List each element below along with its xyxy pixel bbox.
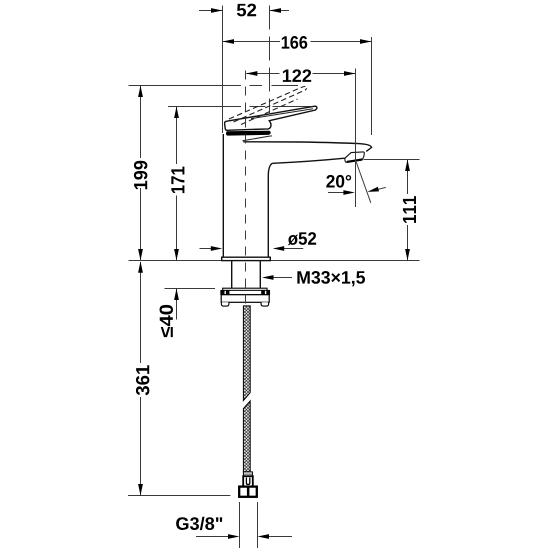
dimension 361 <box>140 262 142 363</box>
extension line top of lever (171) <box>168 106 311 108</box>
extension line 52 right (dashed) <box>269 6 271 114</box>
mounting nut <box>221 295 269 303</box>
dimension 122 <box>246 73 279 75</box>
dimension 52 top <box>199 10 222 12</box>
lever blade inner line <box>251 109 313 119</box>
spout underside <box>273 158 345 163</box>
gasket ring <box>221 290 270 294</box>
faucet body right edge with spout underside curve <box>268 163 272 257</box>
braided hose lower segment <box>243 401 250 472</box>
dimension 111 <box>407 160 409 194</box>
extension line washer top (max 40) <box>165 288 216 290</box>
centerline of faucet body <box>245 65 247 305</box>
faucet body left edge <box>222 134 224 257</box>
extension line outlet height (111 top) <box>364 159 420 161</box>
extension lines G3/8 <box>239 502 241 548</box>
aerator outlet <box>345 152 365 162</box>
extension line top of raised lever (199) <box>129 85 299 87</box>
extension line body left / 52 left <box>222 6 224 134</box>
braided hose upper segment <box>243 306 250 401</box>
nut left lobe <box>221 302 229 306</box>
angle 20 deg arrows and label <box>328 192 346 194</box>
dimension 199 <box>140 86 142 158</box>
angle 20 deg slanted stream line <box>356 162 371 203</box>
washer plate <box>223 288 267 290</box>
raised lever position (dashed) <box>229 87 303 124</box>
hose crimp sleeve <box>243 472 252 476</box>
fitting nut G3/8 <box>239 487 257 497</box>
body shoulder line <box>243 136 273 141</box>
dimension 171 <box>176 107 178 164</box>
lever handle solid <box>225 106 317 130</box>
shadow gap under lever (black band) <box>226 131 271 136</box>
label diameter 52 with leader arrows <box>200 248 215 250</box>
angle reference vertical line <box>355 163 357 208</box>
dimension G3/8 <box>196 536 229 538</box>
base flange <box>222 257 271 260</box>
base plane line <box>129 260 420 262</box>
label M33x1,5 with leader arrow <box>272 277 292 279</box>
extension line spout tip / 166 right <box>371 37 373 135</box>
extension line hose end (361 bottom) <box>128 495 230 497</box>
spout deck top <box>243 142 371 152</box>
dimension max 40 <box>176 289 178 320</box>
dimension 166 <box>223 41 280 43</box>
fitting body with slot <box>243 476 253 486</box>
nut right lobe <box>261 302 269 306</box>
extension line outlet center / 122 right <box>355 69 357 163</box>
threaded shank <box>231 261 233 288</box>
